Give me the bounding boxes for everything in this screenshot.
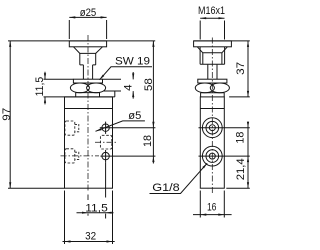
centerline through middle hidden port — [95, 141, 117, 143]
wire cap-top extension line right view (37 datum) — [194, 40, 250, 42]
svg-text:18: 18 — [142, 135, 154, 147]
button collar left view — [80, 53, 96, 65]
boss below nut left view — [76, 93, 100, 97]
centerline through lower-left hidden port — [61, 155, 100, 157]
lower hole extension down to 11.5 dim — [105, 162, 107, 218]
button bevel left view — [74, 47, 103, 54]
panel nut chamfer arcs left view — [70, 83, 89, 93]
button cap right view — [194, 41, 232, 47]
svg-text:4: 4 — [122, 84, 134, 91]
body internal edge left view — [65, 108, 113, 110]
dim M16x1 line — [200, 17, 224, 19]
svg-text:58: 58 — [143, 78, 155, 91]
nut seat extension for 37 — [229, 96, 250, 98]
centerline right view — [211, 38, 213, 194]
svg-text:M16x1: M16x1 — [198, 5, 225, 17]
dim 025: dimension line — [69, 16, 106, 18]
stem right view — [208, 65, 217, 80]
svg-text:11,5: 11,5 — [85, 202, 108, 214]
hidden port upper-left step (dashed) — [75, 124, 79, 131]
leader G1/8 — [150, 163, 208, 193]
hole crosshair verticals — [105, 122, 107, 163]
upper hole center extension to 58/18 dims — [100, 127, 156, 129]
dim 32 extension lines — [65, 191, 113, 245]
svg-text:16: 16 — [207, 201, 217, 213]
body bottom extension right — [226, 187, 250, 189]
button cap left view — [69, 41, 106, 47]
dim 025 arrows — [69, 16, 75, 18]
centerline extension below body for 11.5 dim — [87, 195, 89, 216]
dim 16 line — [193, 214, 232, 216]
body bottom extension to 97 dim — [8, 187, 65, 189]
hole 05 lower left view — [102, 152, 109, 159]
panel nut chamfer arcs right view — [195, 83, 214, 93]
port center extensions to 18/21.4 dims — [199, 128, 250, 156]
svg-text:ø5: ø5 — [128, 110, 141, 122]
svg-text:97: 97 — [1, 108, 13, 121]
dim 11.5 left vertical — [44, 78, 74, 80]
svg-text:11,5: 11,5 — [34, 77, 46, 97]
dim 4 line — [132, 72, 134, 99]
svg-text:32: 32 — [85, 230, 96, 242]
body internal edge right view — [200, 108, 224, 110]
dim 4 extension lines — [103, 79, 122, 91]
dim 97 line — [9, 41, 11, 188]
svg-text:37: 37 — [235, 62, 247, 75]
dim 025: extension lines — [69, 20, 106, 39]
svg-text:21,4: 21,4 — [235, 158, 247, 180]
lower hole center extension to 18 dim — [100, 155, 155, 157]
dim 11.5 bottom: extension of centerline handled; dim line — [77, 212, 114, 214]
dim M16x1 extension lines — [200, 21, 224, 40]
dim 32 line — [63, 241, 115, 243]
hidden port lower-left (dashed) — [65, 149, 75, 163]
panel nut plate right view — [198, 79, 227, 83]
svg-text:ø25: ø25 — [80, 7, 97, 19]
nut seat line / 11.5 lower extension — [44, 96, 115, 98]
hidden port lower-left step (dashed) — [75, 152, 79, 159]
wire cap-top extension line left view (97/58 datum) — [8, 40, 155, 42]
dim 18/21.4 line right — [247, 122, 249, 189]
dim 58 line — [152, 41, 154, 128]
stem left view — [83, 65, 92, 79]
port G1/8 lower right view — [202, 146, 222, 166]
hidden port middle-right (dashed) — [100, 135, 111, 149]
hole 05 upper left view — [102, 124, 109, 131]
centerline left view — [87, 35, 89, 191]
dim 18 left bottom arrow (outside) — [152, 128, 154, 164]
thread bushing bevels right view — [197, 47, 227, 53]
dim 16 extension lines — [200, 191, 224, 218]
dim 37 line — [247, 41, 249, 97]
thread bushing outer right view — [200, 47, 225, 64]
hidden port upper-left (dashed) — [65, 121, 75, 135]
step right of nut left view — [114, 91, 116, 97]
leader SW 19 — [100, 67, 153, 80]
svg-text:SW 19: SW 19 — [115, 56, 150, 68]
port G1/8 upper right view — [202, 118, 222, 138]
svg-text:18: 18 — [235, 132, 247, 144]
panel nut plate left view — [73, 79, 102, 83]
valve body left view — [65, 97, 113, 188]
valve body right view — [200, 97, 224, 188]
thread bushing root lines — [203, 53, 222, 64]
svg-text:G1/8: G1/8 — [152, 182, 180, 194]
boss below nut right view — [201, 93, 225, 97]
leader 05 — [96, 121, 145, 131]
